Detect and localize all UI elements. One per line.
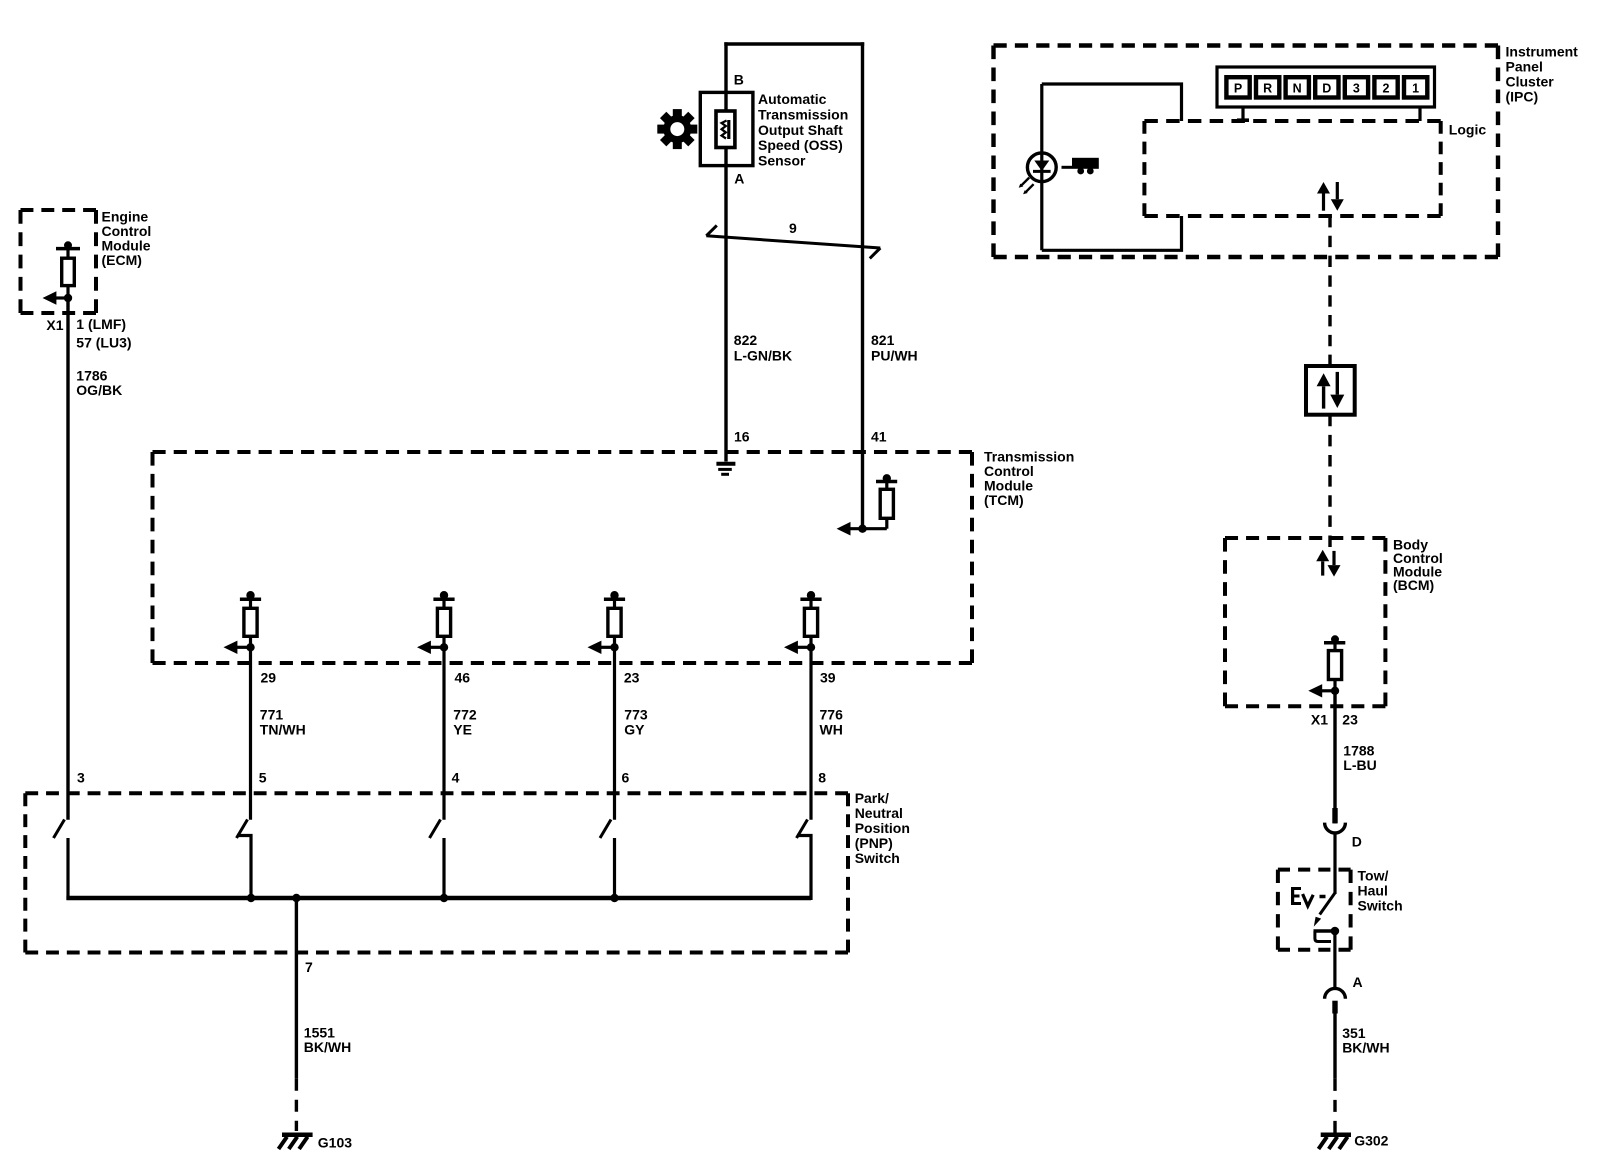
wire 822 (sensor A to TCM 16) — [724, 148, 727, 462]
svg-text:41: 41 — [871, 428, 887, 444]
svg-text:A: A — [734, 171, 744, 187]
PRNDL cell 2 — [1374, 77, 1397, 97]
PRNDL cell 1 — [1404, 77, 1427, 97]
data arrows in BCM — [1316, 550, 1340, 577]
svg-text:46: 46 — [455, 670, 471, 686]
svg-text:3: 3 — [1353, 82, 1360, 96]
wire 1786 (ECM to PNP pin 3) — [66, 298, 69, 820]
resistor in ECM — [43, 241, 81, 304]
switch 3 (pin 4) — [430, 820, 445, 901]
svg-text:3: 3 — [77, 770, 85, 786]
resistor TCM pin 46 — [417, 591, 455, 654]
Ev detent icon inside tow/haul switch — [1291, 887, 1326, 906]
connector D — [1325, 808, 1346, 833]
PRNDL left leg wire — [1237, 107, 1249, 120]
gear icon — [657, 109, 697, 149]
tow/haul switch bottom contact — [1314, 927, 1340, 942]
wire lamp loop bottom — [1042, 216, 1182, 250]
resistor TCM pin 41 — [837, 474, 898, 535]
wire 1551 dashed part — [295, 1079, 298, 1131]
resistor TCM pin 23 — [588, 591, 626, 654]
switch 1 (pin 3) — [54, 820, 69, 901]
serial data interface square — [1306, 366, 1355, 415]
resistor TCM pin 29 — [224, 591, 262, 654]
svg-text:2: 2 — [1383, 82, 1390, 96]
sensor OSS inner element box — [716, 111, 735, 148]
svg-text:773GY: 773GY — [624, 707, 648, 738]
wire D to switch — [1333, 834, 1336, 895]
wire 7 / 1551 — [295, 898, 298, 1079]
svg-text:29: 29 — [261, 670, 277, 686]
switch 4 (pin 6) — [600, 820, 615, 901]
svg-text:D: D — [1322, 82, 1331, 96]
svg-text:D: D — [1352, 834, 1362, 850]
data arrows in Logic box — [1317, 182, 1344, 211]
PRNDL cell P — [1226, 77, 1249, 97]
svg-text:39: 39 — [820, 670, 836, 686]
sensor OSS outer box — [700, 92, 753, 165]
IPC dashed box — [994, 46, 1499, 258]
wire through lamp — [1040, 84, 1043, 250]
tow/haul switch blade — [1314, 893, 1335, 927]
ground symbol inside TCM at pin 16 — [716, 464, 735, 475]
Logic dashed box — [1144, 121, 1440, 216]
svg-text:23: 23 — [624, 670, 640, 686]
svg-text:9: 9 — [789, 220, 797, 236]
svg-text:6: 6 — [622, 770, 630, 786]
svg-text:N: N — [1293, 82, 1302, 96]
PRNDL cell 3 — [1345, 77, 1368, 97]
PRNDL cell N — [1286, 77, 1309, 97]
PRNDL cell R — [1256, 77, 1279, 97]
BCM dashed box — [1225, 538, 1385, 706]
indicator lamp (LED) — [1027, 153, 1056, 182]
svg-text:1 (LMF): 1 (LMF) — [76, 316, 126, 332]
svg-text:X1: X1 — [1311, 711, 1328, 727]
serial data dashed wire interface to BCM — [1328, 415, 1331, 547]
svg-text:8: 8 — [818, 770, 826, 786]
ground G302 — [1319, 1135, 1352, 1149]
wire lamp loop top — [1042, 84, 1182, 121]
wire 9 crossing line with arrows — [706, 225, 880, 258]
junction on bus at switch 3 — [440, 894, 448, 902]
junction on bus at wire 7 — [292, 894, 300, 902]
resistor in BCM — [1308, 635, 1345, 697]
PRNDL display box — [1217, 67, 1435, 107]
bus wire inside PNP switch — [66, 896, 811, 900]
svg-text:57 (LU3): 57 (LU3) — [76, 335, 131, 351]
svg-text:P: P — [1234, 82, 1242, 96]
PRNDL right leg wire — [1418, 107, 1421, 121]
sensor element coil glyph — [722, 120, 731, 139]
trailer (tow/haul) indicator icon — [1062, 158, 1099, 175]
svg-text:G103: G103 — [318, 1135, 352, 1151]
PRNDL cell D — [1315, 77, 1338, 97]
ground G103 — [279, 1135, 313, 1149]
svg-text:5: 5 — [259, 770, 267, 786]
data arrows in interface square — [1317, 372, 1345, 409]
junction on bus at switch 4 — [610, 894, 618, 902]
svg-text:7: 7 — [305, 959, 313, 975]
PNP switch dashed box — [25, 793, 848, 952]
wire 772 — [442, 647, 445, 820]
svg-text:R: R — [1263, 82, 1272, 96]
junction on bus at switch 2 — [247, 894, 255, 902]
wire 351 dashed part — [1333, 1079, 1336, 1133]
wire 773 — [613, 647, 616, 820]
svg-text:776WH: 776WH — [820, 707, 844, 738]
svg-text:4: 4 — [452, 770, 460, 786]
wire 351 — [1333, 1014, 1336, 1079]
wire 1788 (BCM to tow/haul switch) — [1333, 691, 1336, 824]
TCM dashed box — [153, 452, 973, 663]
ECM dashed box — [21, 210, 97, 313]
serial data dashed wire IPC to interface — [1328, 216, 1331, 366]
svg-text:1788L-BU: 1788L-BU — [1343, 742, 1376, 773]
svg-text:A: A — [1353, 974, 1363, 990]
Tow/Haul switch dashed box — [1278, 870, 1351, 950]
connector A — [1325, 988, 1346, 1013]
svg-text:G302: G302 — [1354, 1133, 1388, 1149]
svg-text:B: B — [734, 72, 744, 88]
svg-text:X1: X1 — [46, 317, 63, 333]
lamp light rays — [1019, 178, 1034, 195]
wire 776 — [809, 647, 812, 820]
wire top loop between OSS sensor pin B and wire 821 — [724, 42, 864, 528]
wire 771 — [249, 647, 252, 820]
svg-text:23: 23 — [1342, 711, 1358, 727]
switch 2 (pin 5) — [237, 820, 252, 901]
resistor TCM pin 39 — [784, 591, 822, 654]
svg-text:Logic: Logic — [1449, 122, 1487, 138]
svg-text:1: 1 — [1412, 82, 1419, 96]
wire switch to connector A — [1333, 931, 1336, 989]
svg-text:16: 16 — [734, 428, 750, 444]
switch 5 (pin 8) — [797, 820, 812, 901]
